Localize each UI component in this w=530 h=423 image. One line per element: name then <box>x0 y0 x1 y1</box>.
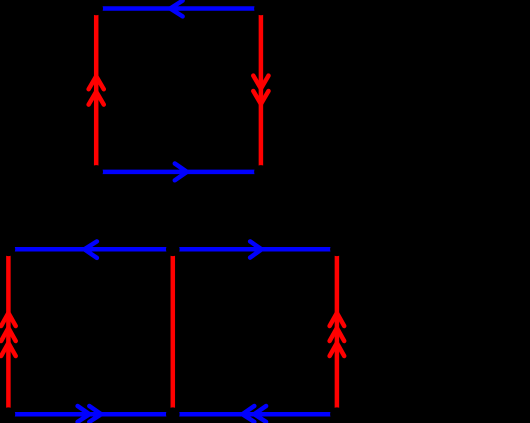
wire edge d1: bottom edge of bottom-left square (blue) <box>8 412 172 417</box>
vertex dot: bottom-left of top square (black) <box>89 165 103 179</box>
arrowheads on d1: double chevron pointing right <box>78 406 102 422</box>
vertex dot: bottom figure top-left (black) <box>2 243 16 257</box>
vertex dot: bottom figure bottom-left (black) <box>2 407 16 421</box>
wire edge c2: top edge of bottom-right square (blue) <box>173 247 337 252</box>
wire edge f: middle edge of bottom figure (red, no arrow) <box>171 249 176 414</box>
wire edge b2: bottom edge of top square (blue) <box>96 170 261 175</box>
vertex dot: bottom figure top-middle (black) <box>166 243 180 257</box>
wire edge e2: right edge of bottom figure (red) <box>335 249 340 414</box>
arrowhead on c1: single chevron pointing left <box>84 241 97 258</box>
vertex dot: top-left of top square (black) <box>89 2 103 16</box>
arrowheads on a1: double chevron pointing up <box>89 76 104 104</box>
vertex dot: bottom-right of top square (black) <box>254 165 268 179</box>
wire edge a2: right edge of top square (red) <box>259 9 264 172</box>
arrowhead on b2: single chevron pointing right <box>175 164 187 181</box>
arrowheads on d2: double chevron pointing left <box>242 406 266 422</box>
vertex dot: bottom figure bottom-right (black) <box>330 407 344 421</box>
wire edge d2: bottom edge of bottom-right square (blue) <box>173 412 337 417</box>
arrowhead on b1: single chevron pointing left <box>170 1 182 17</box>
wire edge a1: left edge of top square (red) <box>94 9 99 172</box>
vertex dot: top-right of top square (black) <box>254 2 268 16</box>
wire edge c1: top edge of bottom-left square (blue) <box>8 247 172 252</box>
arrowheads on e1: triple chevron pointing up <box>1 313 16 356</box>
arrowhead on c2: single chevron pointing right <box>250 241 262 257</box>
wire edge e1: left edge of bottom figure (red) <box>6 249 11 414</box>
vertex dot: bottom figure bottom-middle (black) <box>166 407 180 421</box>
arrowheads on e2: triple chevron pointing up <box>330 313 345 356</box>
wire edge b1: top edge of top square (blue) <box>96 6 261 11</box>
arrowheads on a2: double chevron pointing down <box>253 76 268 104</box>
vertex dot: bottom figure top-right (black) <box>330 243 344 257</box>
